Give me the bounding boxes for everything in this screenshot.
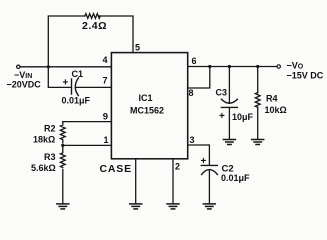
node D junction C3 — [228, 65, 231, 68]
wire C2 to ground — [208, 170, 210, 204]
svg-text:4: 4 — [103, 55, 108, 65]
wire pin 9 to R2 — [63, 121, 112, 123]
resistor R4 — [255, 93, 260, 108]
node E junction R4 — [256, 65, 259, 68]
svg-text:2.4Ω: 2.4Ω — [82, 20, 107, 32]
svg-text:CASE: CASE — [100, 163, 132, 175]
svg-text:10kΩ: 10kΩ — [265, 105, 287, 115]
svg-text:1: 1 — [104, 135, 109, 145]
svg-text:R4: R4 — [266, 94, 278, 104]
wire R4 to ground — [257, 107, 259, 139]
capacitor C1 — [72, 78, 79, 96]
svg-text:0.01μF: 0.01μF — [62, 96, 91, 106]
svg-text:6: 6 — [192, 56, 197, 66]
svg-text:C3: C3 — [216, 88, 228, 98]
capacitor C3 — [221, 99, 237, 107]
ground for CASE — [130, 204, 142, 209]
ground for C3 — [223, 140, 235, 145]
wire pin 2 to ground — [172, 159, 174, 204]
wire node E down to R4 — [257, 67, 259, 93]
svg-text:8: 8 — [189, 88, 194, 98]
wire node A down to capacitor C1 — [48, 67, 71, 88]
svg-text:2: 2 — [175, 162, 180, 172]
wire pin 6 to output terminal — [188, 66, 277, 68]
wire node A to pin 4 — [48, 66, 111, 68]
wire node D down to C3 — [228, 67, 230, 104]
input terminal -VIN — [17, 65, 20, 68]
svg-text:5.6kΩ: 5.6kΩ — [31, 163, 56, 173]
wire C3 to ground — [228, 107, 230, 139]
IC U1 box — [111, 53, 187, 159]
ground for R3 — [57, 204, 69, 209]
wire pin 8 loop to pin-6 net — [188, 67, 210, 89]
svg-text:C1: C1 — [72, 69, 84, 79]
svg-text:+: + — [63, 78, 69, 89]
svg-text:R2: R2 — [44, 124, 56, 134]
wire pin 3 to capacitor C2 — [188, 145, 210, 165]
svg-text:−20VDC: −20VDC — [7, 80, 42, 90]
svg-text:10μF: 10μF — [232, 112, 254, 122]
svg-text:3: 3 — [190, 135, 195, 145]
node A junction — [47, 65, 50, 68]
wire node B to pin 1 — [63, 144, 112, 146]
svg-text:+: + — [219, 111, 225, 122]
node B junction R2/R3 — [61, 144, 64, 147]
ground for C2 — [203, 204, 215, 209]
svg-text:−15V DC: −15V DC — [287, 71, 324, 81]
svg-text:5: 5 — [135, 43, 140, 53]
svg-text:+: + — [201, 156, 207, 167]
resistor R3 — [60, 145, 65, 167]
output terminal -Vo — [277, 65, 280, 68]
wire R3 to ground — [62, 170, 64, 204]
capacitor C2 — [201, 165, 217, 174]
node C junction pin8/pin6 — [208, 65, 211, 68]
wire CASE pin to ground — [135, 159, 137, 204]
ground for R4 — [252, 140, 264, 145]
wire node A up to resistor 2.4 ohm — [48, 16, 85, 66]
wire C1 to pin 7 — [76, 86, 112, 88]
svg-text:MC1562: MC1562 — [130, 106, 164, 116]
svg-text:18kΩ: 18kΩ — [33, 135, 55, 145]
svg-text:7: 7 — [103, 76, 108, 86]
wire input terminal to node A — [20, 66, 48, 68]
resistor R2 — [60, 122, 65, 143]
svg-text:IC1: IC1 — [139, 93, 153, 103]
svg-text:R3: R3 — [44, 152, 56, 162]
svg-text:9: 9 — [103, 112, 108, 123]
svg-text:0.01μF: 0.01μF — [221, 173, 250, 183]
ground for pin 2 — [167, 204, 179, 209]
wire resistor to IC pin 5 — [99, 16, 133, 53]
resistor 2.4 ohm — [85, 14, 100, 19]
